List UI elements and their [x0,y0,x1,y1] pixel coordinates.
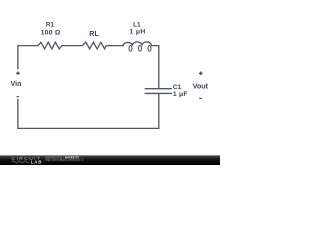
svg-text:Vin: Vin [11,81,22,88]
svg-text:C1: C1 [173,84,182,91]
svg-text:1 μF: 1 μF [173,91,188,98]
svg-text:LAB: LAB [31,160,43,165]
svg-text:100 Ω: 100 Ω [41,29,61,36]
svg-text:Vout: Vout [193,81,209,90]
svg-text:http://circuitlab.com/5azc72: http://circuitlab.com/5azc72 [45,158,84,162]
svg-text:1 μH: 1 μH [130,28,146,35]
svg-text:RL: RL [89,29,99,38]
svg-text:R1: R1 [46,22,55,29]
